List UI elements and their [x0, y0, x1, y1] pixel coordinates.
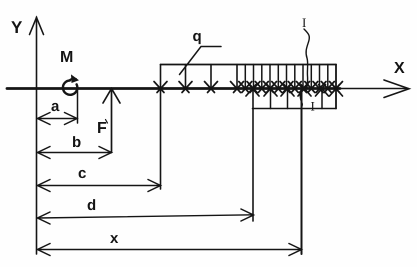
dimension d left arrowhead — [38, 212, 51, 224]
distributed load q rectangle top edge — [161, 64, 337, 66]
dimension d line — [38, 215, 253, 218]
force F shaft — [111, 91, 113, 153]
moment M circular arrow — [63, 80, 77, 94]
force F arrowhead — [103, 89, 120, 104]
dimension c line — [38, 185, 160, 187]
dimension b right arrowhead — [99, 147, 112, 159]
dimension a line — [38, 118, 76, 120]
lower load up-arrowheads on beam — [246, 85, 343, 97]
svg-text:a: a — [51, 98, 60, 115]
q load down-arrowheads on beam — [154, 82, 343, 93]
moment M arrowhead — [71, 74, 79, 83]
extension line at d — [252, 89, 254, 222]
svg-text:I: I — [302, 15, 306, 30]
X axis thin extension — [336, 88, 408, 90]
X axis arrowhead — [384, 80, 409, 98]
q rectangle left edge + c extension line — [160, 65, 162, 190]
section leader squiggle bottom — [300, 90, 302, 109]
q rectangle right edge — [335, 65, 337, 109]
Y axis arrowhead — [30, 18, 44, 35]
force F tick — [106, 120, 108, 124]
svg-text:x: x — [110, 230, 119, 247]
dimension c right arrowhead — [148, 180, 161, 192]
q load dividers sparse — [186, 65, 238, 89]
section leader squiggle top — [304, 29, 309, 88]
svg-text:M: M — [60, 49, 73, 66]
dimension b left arrowhead — [38, 147, 51, 159]
svg-text:b: b — [72, 134, 81, 151]
lower load rectangle bottom edge — [253, 108, 337, 110]
svg-text:c: c — [78, 165, 86, 182]
dimension b line — [38, 152, 110, 154]
dimension x line — [38, 249, 301, 251]
lower load dividers — [271, 89, 323, 109]
Y axis — [36, 17, 38, 254]
dimension d right arrowhead — [241, 209, 254, 221]
svg-text:I: I — [311, 99, 315, 114]
dimension x right arrowhead — [289, 244, 302, 256]
extension line at a — [77, 89, 79, 123]
dimension a right arrowhead — [65, 113, 78, 125]
svg-text:X: X — [394, 60, 405, 77]
svg-text:q: q — [193, 28, 202, 45]
q load dividers dense — [245, 65, 327, 89]
X axis beam line — [7, 87, 340, 90]
svg-text:d: d — [87, 197, 96, 214]
moment M arrow curve — [69, 79, 76, 81]
svg-text:Y: Y — [11, 18, 23, 37]
dimension x left arrowhead — [38, 244, 51, 256]
dimension a left arrowhead — [38, 113, 51, 125]
dimension c left arrowhead — [38, 180, 51, 192]
extension line at x — [301, 89, 303, 255]
q leader line — [180, 47, 222, 75]
svg-text:F: F — [97, 120, 107, 137]
